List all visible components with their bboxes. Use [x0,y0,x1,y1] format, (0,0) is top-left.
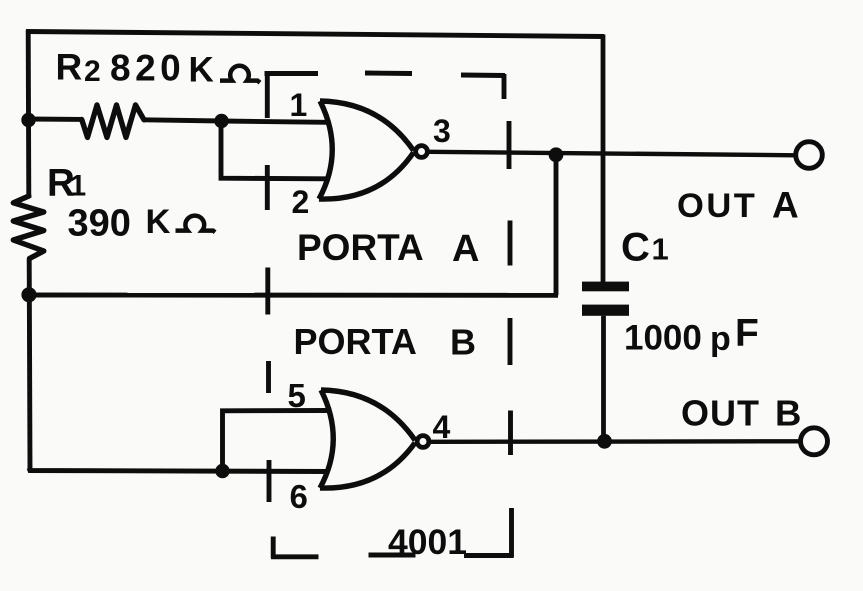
IC 4001 dashed box top edge [265,73,506,76]
svg-text:A: A [452,228,479,270]
svg-text:3: 3 [433,113,451,149]
wire C1 bottom vertical [601,316,606,442]
resistor R2 [82,105,144,137]
wire left vertical upper [26,30,31,198]
junction node C1 out B [597,434,612,449]
IC 4001 dashed box right edge [504,74,512,558]
svg-text:PORTA: PORTA [294,321,417,362]
svg-text:F: F [735,312,759,355]
svg-text:1000: 1000 [624,319,702,358]
svg-text:OUT: OUT [677,187,757,225]
svg-text:OUT: OUT [681,393,760,434]
junction node gate A input [214,114,228,128]
wire left vertical lower [27,259,33,470]
label R1 value 390 K [68,203,171,245]
label R2 [56,47,101,89]
label OUT B [681,393,801,434]
wire pin1 to pin2 tie [221,123,327,179]
resistor R1 [13,196,44,259]
terminal OUT A [796,142,823,169]
label C1 value 1000pF [624,312,759,358]
svg-text:1: 1 [70,170,87,203]
svg-text:1: 1 [652,232,669,267]
wire middle rail [29,293,559,298]
terminal OUT B [801,428,828,455]
svg-text:6: 6 [290,478,308,515]
capacitor C1 [582,282,629,316]
label PORTA A [297,227,479,270]
wire feedback vertical [554,155,559,295]
svg-text:5: 5 [288,377,306,414]
svg-text:C: C [621,226,650,270]
junction node R1 R2 [21,113,35,127]
svg-text:p: p [710,320,731,358]
wire R2 to gate A pin 1 [144,120,327,123]
wire top rail [26,32,604,37]
label R1 [47,162,86,205]
junction node feedback A [549,147,564,162]
svg-text:K: K [189,51,214,90]
wire output A [430,152,797,156]
label R1 value ohm symbol [176,216,216,233]
op-amp gate U1A NOR PORTA A [319,101,427,199]
svg-text:A: A [772,185,799,226]
wire bottom row to gate B [29,468,327,472]
svg-text:820: 820 [110,48,185,89]
svg-text:PORTA: PORTA [297,227,424,268]
svg-text:1: 1 [290,87,308,123]
svg-text:390: 390 [68,203,131,245]
label R2 value ohm symbol [220,66,260,83]
IC 4001 dashed box left edge [267,72,273,558]
label C1 [621,226,669,270]
svg-text:2: 2 [84,55,101,88]
wire R2 row [28,117,82,122]
svg-text:2: 2 [292,184,310,220]
label PORTA B [294,321,477,363]
label OUT A [677,185,799,226]
svg-text:R: R [56,47,83,88]
junction node gate B input [215,464,229,478]
svg-text:B: B [450,322,476,363]
wire output B [431,439,801,444]
IC 4001 dashed box bottom edge [271,555,514,557]
svg-text:K: K [146,203,171,241]
svg-text:4001: 4001 [388,522,467,562]
label R2 value 820 K [110,48,214,90]
op-amp gate U1B NOR PORTA B [320,390,429,488]
wire C1 top vertical [601,35,606,284]
wire pin6 to pin5 tie [223,411,328,470]
junction node R1 bottom [21,287,36,302]
svg-text:B: B [775,393,801,434]
